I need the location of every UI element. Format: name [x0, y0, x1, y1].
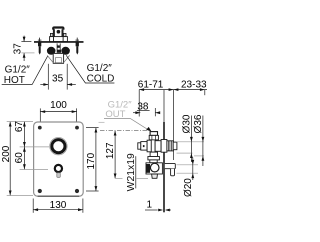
volume control body	[146, 163, 162, 174]
dim 35	[40, 64, 76, 90]
svg-text:170: 170	[86, 152, 97, 169]
svg-text:130: 130	[50, 200, 67, 211]
dim dia36	[202, 116, 204, 167]
valve side view: top port	[149, 132, 158, 140]
volume control circle	[150, 163, 159, 172]
svg-text:1: 1	[147, 200, 153, 211]
flow knob stub	[57, 173, 61, 178]
mounting hole bottom-right	[75, 189, 79, 193]
leader hot	[2, 56, 48, 84]
stub below volume control	[152, 174, 158, 178]
dim 60	[23, 147, 26, 152]
wall line thin upper	[163, 90, 165, 122]
svg-text:60: 60	[14, 152, 25, 164]
dim 127	[114, 131, 116, 179]
cap side walls	[53, 29, 64, 36]
svg-text:G1/2″: G1/2″	[87, 63, 113, 74]
svg-text:Ø36: Ø36	[193, 114, 204, 133]
leader cold	[66, 55, 114, 83]
leader out	[104, 119, 149, 131]
svg-text:Ø20: Ø20	[183, 178, 194, 197]
outlet elbow	[165, 163, 176, 175]
svg-text:37: 37	[12, 43, 23, 55]
svg-text:23-33: 23-33	[181, 79, 207, 90]
cover plate	[34, 122, 84, 196]
svg-text:38: 38	[137, 101, 149, 112]
dim 200 / 67 / 60 extension lines	[7, 121, 49, 195]
mounting hole bottom-left	[38, 189, 42, 193]
center body between unions	[57, 43, 61, 52]
thermostat knob ring	[52, 140, 65, 153]
svg-text:67: 67	[14, 121, 25, 133]
flow knob ring	[55, 165, 62, 172]
left mounting screw	[38, 38, 42, 55]
svg-text:100: 100	[50, 100, 67, 111]
cap screw circle	[57, 30, 61, 34]
wall flange line	[34, 41, 84, 43]
dim 130	[33, 199, 83, 213]
dia refs gray lines	[177, 142, 205, 173]
valve main body	[138, 140, 177, 153]
dim 170	[86, 128, 99, 191]
svg-text:61-71: 61-71	[138, 79, 164, 90]
cap shoulders	[50, 33, 66, 36]
mounting hole top-right	[75, 126, 79, 130]
skirt diagonal right	[64, 55, 70, 62]
valve cap top bar	[53, 28, 63, 30]
svg-text:W21x19: W21x19	[126, 153, 137, 191]
centerline dash-dot	[100, 130, 147, 132]
svg-text:Ø30: Ø30	[181, 114, 192, 133]
skirt diagonal left	[47, 55, 53, 62]
mounting hole top-left	[38, 126, 42, 130]
dim 38	[133, 108, 159, 116]
svg-text:127: 127	[105, 142, 116, 159]
valve upper block	[50, 37, 68, 42]
valve bottom port	[148, 152, 160, 163]
hot union (left black ellipse)	[47, 47, 56, 55]
wall line thick	[163, 122, 165, 212]
dim 37	[21, 36, 34, 61]
dim 1 (wall)	[145, 209, 171, 211]
dim 200	[9, 122, 11, 195]
right mounting screw	[76, 38, 80, 55]
plate top reference seg	[99, 121, 105, 123]
svg-text:35: 35	[52, 74, 64, 85]
dim 67	[23, 122, 25, 169]
cold union (right black ellipse)	[61, 47, 70, 55]
thermostat knob outer faint circle	[50, 138, 67, 155]
dim dia30	[190, 116, 192, 163]
dim dia20	[192, 158, 194, 181]
outlet box (plan)	[53, 53, 63, 63]
svg-text:200: 200	[1, 145, 12, 162]
dim line 61-71 / 23-33	[139, 90, 207, 160]
dim 100	[40, 108, 76, 121]
plate bottom shade	[38, 195, 80, 197]
